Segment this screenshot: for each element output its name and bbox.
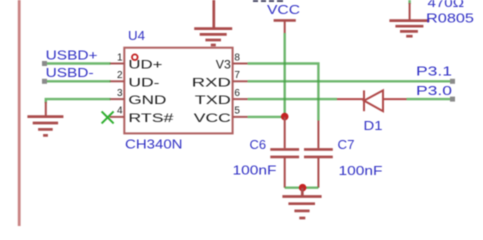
pin numbers — [117, 52, 240, 116]
svg-text:6: 6 — [234, 88, 240, 99]
wire TXD right part / P3.0 — [407, 98, 453, 100]
svg-text:1: 1 — [117, 52, 123, 63]
svg-text:4: 4 — [117, 106, 123, 117]
svg-text:CH340N: CH340N — [125, 137, 183, 152]
diode D1 — [337, 90, 407, 111]
svg-text:RXD: RXD — [192, 75, 232, 89]
pins right — [233, 64, 248, 117]
capacitor C6 — [284, 117, 286, 148]
cut-off text top — [253, 0, 283, 2]
svg-text:USBD+: USBD+ — [46, 48, 98, 62]
wire RXD / P3.1 — [248, 80, 453, 82]
svg-text:USBD-: USBD- — [46, 66, 94, 80]
wire VCC vertical — [284, 33, 286, 117]
svg-text:3: 3 — [117, 88, 123, 99]
pin1 marker — [132, 54, 138, 60]
svg-text:2: 2 — [117, 70, 123, 81]
svg-text:UD-: UD- — [128, 75, 159, 89]
VCC power port — [267, 2, 300, 33]
wire pin3 GND — [46, 99, 111, 103]
svg-text:7: 7 — [234, 70, 240, 81]
ground (top right) — [389, 21, 429, 37]
wire cap bottoms — [285, 186, 319, 188]
node P3.1 wire end — [450, 79, 455, 84]
junction gnd — [299, 184, 307, 192]
capacitor C7 — [317, 121, 319, 149]
node P3.0 wire end — [450, 97, 455, 102]
svg-text:UD+: UD+ — [128, 58, 162, 72]
wire pin1 — [45, 62, 111, 64]
resistor R0805 leftover (top right) — [389, 0, 474, 36]
pin names — [128, 58, 231, 125]
node USBD- wire end — [42, 79, 47, 84]
svg-text:100nF: 100nF — [233, 163, 277, 178]
svg-text:100nF: 100nF — [339, 163, 383, 178]
node USBD+ wire end — [42, 61, 47, 66]
wire TXD left part — [248, 98, 337, 100]
svg-text:GND: GND — [128, 93, 166, 107]
svg-text:470Ω: 470Ω — [428, 0, 465, 10]
svg-text:C7: C7 — [338, 137, 355, 152]
svg-text:TXD: TXD — [195, 93, 232, 107]
svg-text:5: 5 — [234, 106, 240, 117]
no-connect X on pin 4 — [102, 111, 114, 123]
svg-text:R0805: R0805 — [426, 11, 474, 26]
ground (left) — [27, 117, 63, 136]
svg-text:P3.1: P3.1 — [416, 64, 452, 79]
svg-text:D1: D1 — [364, 118, 383, 133]
svg-text:V3: V3 — [216, 58, 231, 72]
junction VCC/C6 — [281, 113, 289, 121]
wire pin2 — [45, 80, 111, 82]
svg-text:VCC: VCC — [267, 2, 300, 17]
svg-text:RTS#: RTS# — [128, 111, 173, 125]
svg-text:VCC: VCC — [194, 111, 231, 125]
svg-text:U4: U4 — [128, 28, 145, 43]
wire V3 — [248, 64, 319, 121]
svg-text:C6: C6 — [250, 137, 267, 152]
svg-text:8: 8 — [234, 52, 240, 63]
sheet border — [18, 0, 21, 226]
ground (top middle) — [194, 0, 232, 45]
svg-text:P3.0: P3.0 — [416, 83, 452, 98]
ground (bottom) — [282, 188, 321, 218]
wire VCC pin5 — [248, 116, 285, 118]
pins left — [110, 64, 125, 117]
